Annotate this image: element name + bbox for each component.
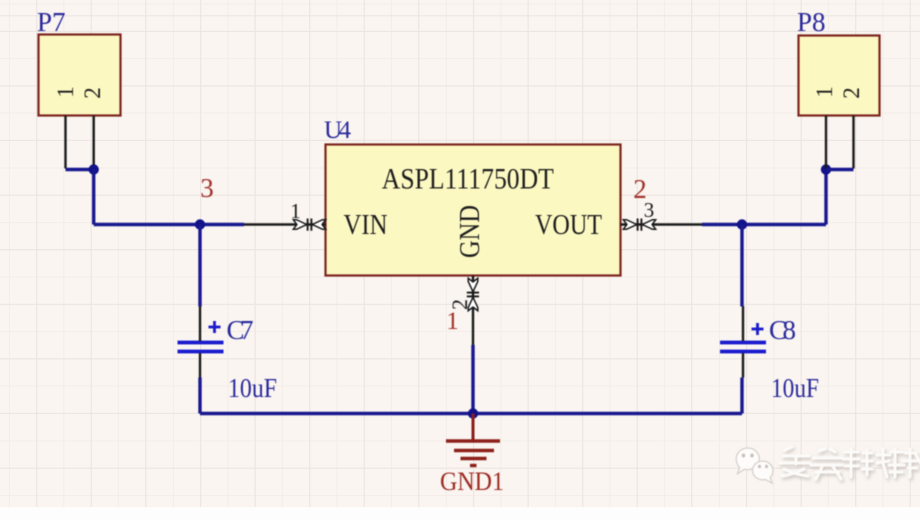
wire VOUT net horizontal xyxy=(702,223,826,226)
wire VIN net horizontal xyxy=(94,223,244,226)
junction under P7 xyxy=(89,164,99,174)
wire ground bus xyxy=(200,412,742,415)
P8 pin 2 xyxy=(839,87,864,168)
U4 pin 3 VOUT pin line xyxy=(621,223,703,225)
net label 3 xyxy=(200,173,214,203)
U4 part number ASPL111750DT xyxy=(382,163,554,196)
C7 value 10uF xyxy=(228,373,277,403)
C7 pin lines xyxy=(199,306,201,378)
U4 pin 1 number xyxy=(290,199,301,223)
C7 plus sign xyxy=(209,321,221,333)
svg-text:VOUT: VOUT xyxy=(535,209,602,241)
svg-text:1: 1 xyxy=(446,308,459,335)
wire P8 riser xyxy=(824,170,827,225)
junction under P8 xyxy=(821,164,831,174)
wire P8 pins jog xyxy=(826,168,854,171)
P7 pin 2 xyxy=(80,87,105,168)
net label 2 xyxy=(633,174,647,204)
capacitor C7 plates xyxy=(178,343,224,352)
wire GND pin to bus xyxy=(471,345,474,414)
junction VOUT net / C8 xyxy=(737,219,747,229)
C7 designator xyxy=(227,315,254,345)
watermark text xyxy=(780,447,920,479)
svg-text:C8: C8 xyxy=(769,315,796,345)
wire C7 top branch xyxy=(198,225,201,307)
svg-text:1: 1 xyxy=(53,86,78,98)
svg-text:ASPL111750DT: ASPL111750DT xyxy=(382,163,554,196)
svg-text:P7: P7 xyxy=(37,7,66,37)
U4 pin 3 I/O arrows xyxy=(623,219,655,231)
net label 1 xyxy=(446,308,459,335)
P8 pin 1 xyxy=(812,86,837,168)
wire C8 top branch xyxy=(740,225,743,307)
U4 pin 3 number xyxy=(644,198,655,222)
connector P8 xyxy=(799,36,880,116)
U4 pin 1 I/O arrows xyxy=(293,219,325,231)
ground symbol GND1 xyxy=(446,414,500,466)
svg-text:3: 3 xyxy=(200,173,214,203)
wire P7 pins jog xyxy=(66,168,94,171)
P8 designator xyxy=(797,7,826,37)
U4 pin 2 GND pin line xyxy=(472,276,474,346)
U4 pin 1 VIN pin line xyxy=(244,223,326,225)
junction VIN net / C7 xyxy=(195,219,205,229)
svg-text:10uF: 10uF xyxy=(228,373,277,403)
svg-text:P8: P8 xyxy=(797,7,826,37)
U4 VOUT label xyxy=(535,209,602,241)
capacitor C8 plates xyxy=(720,343,766,352)
ground net label GND1 xyxy=(440,467,504,496)
junction ground bus xyxy=(468,408,478,418)
svg-text:GND1: GND1 xyxy=(440,467,504,496)
U4 VIN label xyxy=(344,209,388,241)
svg-text:U4: U4 xyxy=(324,117,352,144)
C8 value 10uF xyxy=(771,373,819,403)
svg-text:2: 2 xyxy=(633,174,647,204)
watermark wechat icon xyxy=(736,448,773,483)
U4 pin 2 number (rotated) xyxy=(447,299,472,310)
C8 pin lines xyxy=(742,306,744,378)
P7 designator xyxy=(37,7,66,37)
svg-text:10uF: 10uF xyxy=(771,373,819,403)
svg-text:VIN: VIN xyxy=(344,209,388,241)
IC U4 body xyxy=(326,145,621,276)
svg-text:2: 2 xyxy=(80,87,105,99)
svg-text:GND: GND xyxy=(454,205,486,258)
svg-text:2: 2 xyxy=(839,87,864,99)
svg-text:1: 1 xyxy=(812,86,837,98)
U4 GND label (rotated) xyxy=(454,205,486,258)
C8 designator xyxy=(769,315,796,345)
U4 designator xyxy=(324,117,352,144)
C8 plus sign xyxy=(752,323,764,335)
P7 pin 1 xyxy=(53,86,78,168)
wire P7 down to VIN net xyxy=(92,170,95,225)
wire C8 bottom xyxy=(740,378,743,414)
wire C7 bottom xyxy=(198,378,201,414)
connector P7 xyxy=(39,35,121,116)
U4 pin 2 I/O arrows xyxy=(467,278,479,310)
svg-text:C7: C7 xyxy=(227,315,254,345)
